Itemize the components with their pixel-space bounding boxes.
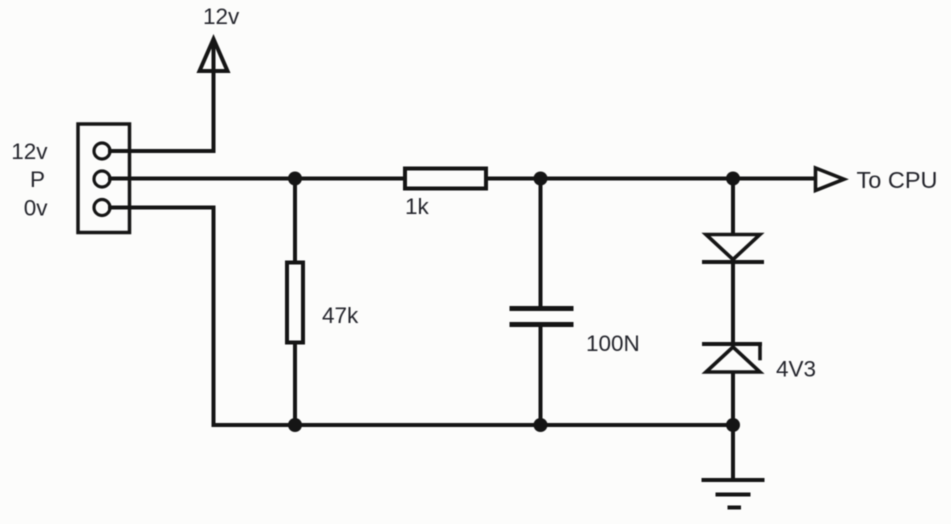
svg-text:4V3: 4V3	[776, 357, 816, 382]
wire main rail middle (R1 to node C)	[487, 177, 733, 181]
wire capacitor to bottom rail	[539, 327, 543, 426]
zener diode D2 4V3	[704, 344, 760, 372]
ground	[704, 480, 763, 508]
svg-text:1k: 1k	[405, 194, 430, 219]
pin 2 circle (P)	[94, 171, 110, 187]
node C junction (top of capacitor)	[534, 172, 548, 186]
connector J1 body	[78, 124, 130, 233]
wire R2 to bottom rail	[293, 343, 297, 425]
output arrow To CPU	[816, 168, 845, 191]
wire main rail right (node D to output arrow)	[733, 177, 816, 181]
node A junction (top of 47k)	[288, 172, 302, 186]
junction bottom of capacitor	[534, 418, 548, 432]
junction bottom of diode chain	[726, 418, 740, 432]
wire pin1 to supply riser	[110, 149, 214, 153]
wire D1 to zener D2	[731, 262, 735, 343]
svg-text:P: P	[30, 167, 45, 192]
wire main rail left (P pin to R1)	[110, 177, 404, 181]
wire bottom rail	[214, 423, 734, 427]
capacitor C1 bottom plate	[512, 322, 571, 327]
wire D2 to bottom rail	[731, 373, 735, 425]
svg-text:100N: 100N	[586, 331, 640, 356]
wire node A to R2	[293, 179, 297, 263]
svg-text:12v: 12v	[11, 139, 48, 164]
resistor R2 47k	[287, 263, 303, 343]
wire 0v vertical drop	[212, 208, 216, 426]
svg-text:0v: 0v	[24, 196, 49, 221]
node D junction (top of diode chain)	[726, 172, 740, 186]
svg-text:47k: 47k	[322, 303, 359, 328]
wire node D to diode D1	[731, 179, 735, 234]
svg-text:12v: 12v	[203, 4, 240, 29]
diode D1	[704, 235, 762, 263]
junction bottom of 47k	[288, 418, 302, 432]
svg-text:To CPU: To CPU	[857, 167, 938, 193]
pin 1 circle (12v)	[94, 143, 110, 159]
wire node C to capacitor	[539, 179, 543, 307]
resistor R1 1k	[405, 169, 486, 189]
capacitor C1 top plate	[512, 306, 571, 311]
pin 3 circle (0v)	[94, 200, 110, 216]
wire pin3 (0v) horizontal	[110, 206, 214, 210]
wire to ground	[731, 425, 735, 478]
power symbol 12v arrow	[200, 39, 228, 151]
